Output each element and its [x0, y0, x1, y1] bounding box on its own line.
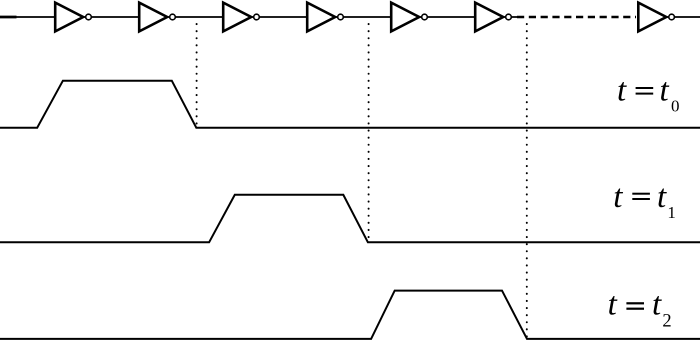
svg-text:t: t — [657, 179, 667, 215]
svg-text:t: t — [617, 73, 627, 109]
svg-text:t: t — [613, 179, 623, 215]
svg-text:2: 2 — [662, 312, 671, 332]
svg-text:t: t — [652, 286, 662, 322]
svg-text:1: 1 — [667, 203, 676, 222]
svg-text:t: t — [660, 73, 670, 109]
svg-text:0: 0 — [671, 97, 680, 116]
svg-text:t: t — [608, 286, 618, 322]
